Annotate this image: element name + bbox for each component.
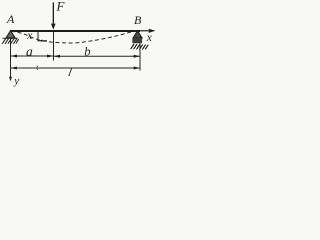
svg-text:b: b <box>84 44 90 58</box>
svg-text:x: x <box>146 32 153 44</box>
svg-text:F: F <box>56 0 66 14</box>
svg-text:B: B <box>134 13 142 27</box>
svg-text:y: y <box>13 75 19 87</box>
svg-text:a: a <box>26 44 33 59</box>
svg-text:A: A <box>6 12 15 26</box>
svg-text:x: x <box>26 30 33 42</box>
